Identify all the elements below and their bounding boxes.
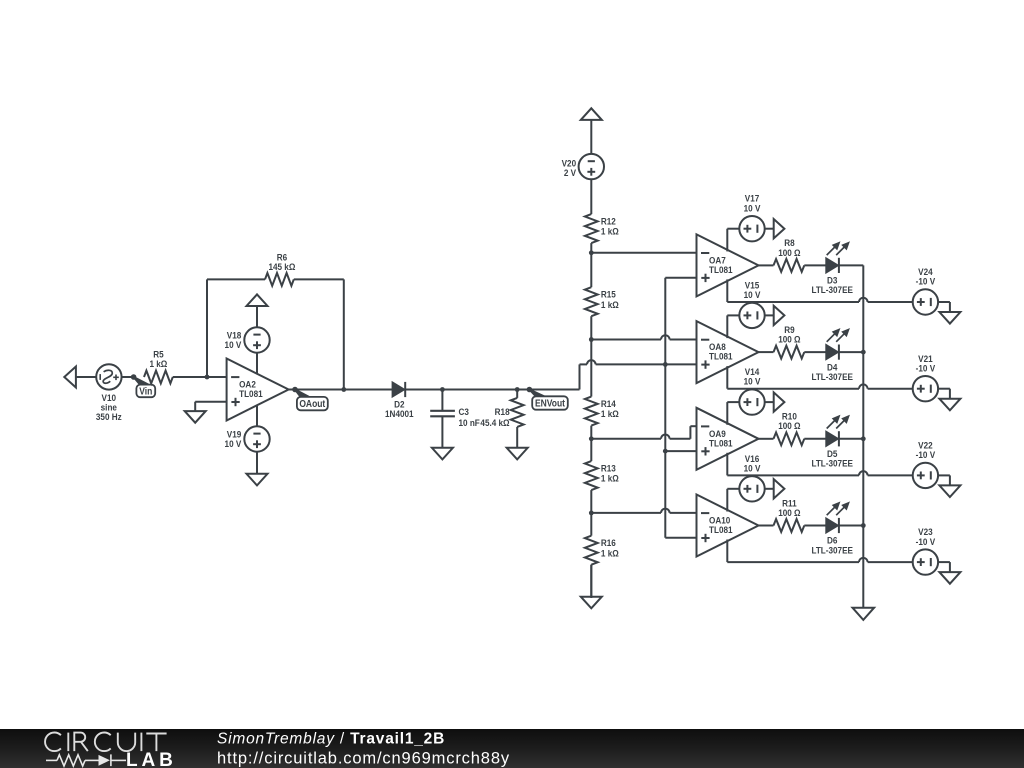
svg-text:-10 V: -10 V	[916, 276, 936, 287]
wire (V- pin to negative supply)	[727, 540, 912, 563]
node Vin flag	[131, 374, 155, 397]
voltage source V20 2 V	[579, 154, 604, 179]
svg-text:1 kΩ: 1 kΩ	[601, 548, 619, 559]
svg-text:TL081: TL081	[239, 388, 263, 399]
resistor R18 45.4k	[511, 390, 524, 448]
ground (top of ladder, rotated up)	[581, 108, 602, 154]
node (rail-ENVout junction)	[663, 362, 668, 367]
label V17 10 V	[744, 193, 761, 213]
ground (input, rotated left)	[64, 367, 96, 388]
op-amp OA10 TL081	[697, 495, 759, 557]
wire (LED cathode to rail)	[839, 264, 863, 266]
ground (right of V24)	[938, 302, 960, 324]
wire	[122, 376, 134, 378]
resistor R5 1k	[144, 371, 207, 384]
ground (bottom of ladder)	[581, 565, 602, 609]
label V21 -10 V	[916, 353, 936, 373]
node C / wire to OA9 inverting input	[589, 426, 697, 441]
voltage source V17 10 V	[739, 216, 764, 241]
label V14 10 V	[744, 366, 761, 386]
node (cathode rail junction)	[861, 350, 866, 355]
svg-text:10 V: 10 V	[225, 438, 242, 449]
resistor R13 1k	[585, 439, 598, 513]
label R13 1 kOhm	[601, 463, 619, 484]
ground (right of V17)	[765, 219, 785, 238]
svg-text:-10 V: -10 V	[916, 536, 936, 547]
wire (LED cathode to rail)	[839, 438, 863, 440]
wire (non-inverting input rail)	[665, 278, 696, 538]
label R15 1 kOhm	[601, 289, 619, 310]
wire (feedback down leg)	[343, 279, 345, 389]
label C3 10 nF	[459, 406, 481, 428]
label V15 10 V	[744, 280, 761, 300]
voltage source V16 10 V	[739, 476, 764, 501]
svg-text:LTL-307EE: LTL-307EE	[811, 458, 853, 469]
LED D3 LTL-307EE	[826, 242, 849, 273]
svg-text:C3: C3	[459, 406, 469, 417]
svg-text:1 kΩ: 1 kΩ	[601, 409, 619, 420]
svg-text:100 Ω: 100 Ω	[778, 421, 800, 432]
svg-text:100 Ω: 100 Ω	[778, 334, 800, 345]
svg-text:LTL-307EE: LTL-307EE	[811, 371, 853, 382]
svg-text:TL081: TL081	[709, 351, 733, 362]
svg-text:100 Ω: 100 Ω	[778, 507, 800, 518]
node D / wire to OA10 inverting input	[589, 509, 697, 516]
node B / wire to OA8 inverting input	[589, 335, 697, 342]
ground (OA2 non-inverting input)	[185, 402, 227, 423]
ground (right of V23)	[938, 562, 960, 584]
wire (V+ pin)	[256, 353, 258, 375]
svg-text:1 kΩ: 1 kΩ	[601, 473, 619, 484]
wire (LED cathode to rail)	[839, 351, 863, 353]
svg-text:LAB: LAB	[126, 750, 177, 768]
label V23 -10 V	[916, 527, 936, 547]
node OAout flag	[292, 387, 328, 411]
op-amp OA8 TL081	[697, 321, 759, 383]
svg-text:LTL-307EE: LTL-307EE	[811, 545, 853, 556]
node	[440, 387, 445, 392]
ground (right of V22)	[938, 475, 960, 497]
node (rail-OA9 junction)	[663, 449, 668, 454]
svg-text:Vin: Vin	[139, 386, 152, 397]
label V19 10 V	[225, 429, 242, 449]
voltage source V24 -10 V	[913, 289, 938, 314]
wire (feedback up leg)	[206, 279, 208, 377]
label R18 45.4 kOhm	[480, 406, 509, 428]
svg-text:-10 V: -10 V	[916, 449, 936, 460]
wire (V- pin to negative supply)	[727, 279, 912, 302]
svg-text:350 Hz: 350 Hz	[96, 411, 122, 422]
voltage source V21 -10 V	[913, 376, 938, 401]
resistor R10 100 Ohm	[759, 432, 827, 445]
op-amp OA2 TL081	[227, 359, 289, 421]
svg-text:SimonTremblay / Travail1_2B: SimonTremblay / Travail1_2B	[217, 731, 445, 748]
svg-text:10 V: 10 V	[225, 339, 242, 350]
svg-text:ENVout: ENVout	[535, 398, 565, 409]
wire (V+ pin)	[727, 402, 739, 425]
label V10 sine 350 Hz	[96, 392, 122, 422]
label D4 LTL-307EE	[811, 362, 853, 382]
label D5 LTL-307EE	[811, 448, 853, 468]
footer bar	[0, 729, 1024, 768]
label V22 -10 V	[916, 440, 936, 460]
label R8 100 Ohm	[778, 238, 800, 258]
svg-text:45.4 kΩ: 45.4 kΩ	[480, 417, 509, 428]
wire (to OA2 inverting input)	[207, 376, 227, 378]
ground (right of V15)	[765, 306, 785, 325]
svg-text:TL081: TL081	[709, 524, 733, 535]
ground (above V18)	[247, 294, 268, 327]
svg-text:10 V: 10 V	[744, 289, 761, 300]
voltage source V14 10 V	[739, 389, 764, 414]
op-amp OA9 TL081	[697, 408, 759, 470]
resistor R6 145k (feedback)	[207, 273, 344, 286]
voltage source V19 10 V	[244, 426, 269, 451]
wire (V- pin to negative supply)	[727, 366, 912, 389]
ground (bottom of cathode rail)	[853, 608, 875, 620]
wire (LED cathode rail)	[862, 265, 864, 607]
wire (ENVout to comparator + rail)	[580, 360, 666, 389]
node (cathode rail junction)	[861, 523, 866, 528]
svg-text:2 V: 2 V	[564, 168, 576, 179]
svg-text:145 kΩ: 145 kΩ	[268, 261, 295, 272]
resistor R16 1k	[585, 513, 598, 598]
LED D5 LTL-307EE	[826, 416, 849, 447]
op-amp OA7 TL081	[697, 234, 759, 296]
node A / wire to OA7 inverting input	[589, 250, 697, 255]
label R14 1 kOhm	[601, 398, 619, 419]
CircuitLab logo wire graphic	[46, 754, 126, 766]
svg-text:1N4001: 1N4001	[385, 408, 414, 419]
label R11 100 Ohm	[778, 498, 800, 518]
label D2 1N4001	[385, 399, 414, 419]
wire (OA2 output)	[289, 389, 393, 391]
label V16 10 V	[744, 453, 761, 473]
voltage source V23 -10 V	[913, 549, 938, 574]
voltage source V22 -10 V	[913, 463, 938, 488]
node	[515, 387, 520, 392]
label R5 1 kOhm	[149, 349, 167, 369]
wire (V- pin)	[256, 405, 258, 427]
svg-text:http://circuitlab.com/cn969mcr: http://circuitlab.com/cn969mcrch88y	[217, 749, 510, 767]
LED D4 LTL-307EE	[826, 329, 849, 360]
label R6 145 kOhm	[268, 252, 295, 272]
diode D2 1N4001	[393, 382, 406, 397]
svg-text:1 kΩ: 1 kΩ	[149, 358, 167, 369]
wire (LED cathode to rail)	[839, 525, 863, 527]
svg-text:LTL-307EE: LTL-307EE	[811, 285, 853, 296]
wire (V+ pin)	[727, 489, 739, 512]
label R10 100 Ohm	[778, 411, 800, 431]
svg-text:1 kΩ: 1 kΩ	[601, 226, 619, 237]
node	[341, 387, 346, 392]
node ENVout flag	[527, 387, 568, 410]
svg-text:10 V: 10 V	[744, 203, 761, 214]
svg-text:10 V: 10 V	[744, 376, 761, 387]
label R16 1 kOhm	[601, 538, 619, 559]
ground (below V19)	[247, 452, 268, 486]
ground (below C3)	[432, 447, 453, 459]
ground (below R18)	[507, 447, 528, 459]
resistor R12 1k	[585, 179, 598, 253]
voltage source V15 10 V	[739, 303, 764, 328]
wire	[405, 389, 579, 391]
svg-text:R18: R18	[495, 406, 510, 417]
svg-text:10 nF: 10 nF	[459, 417, 481, 428]
ground (right of V21)	[938, 389, 960, 411]
voltage source V10 sine 350 Hz	[96, 364, 121, 389]
svg-text:1 kΩ: 1 kΩ	[601, 299, 619, 310]
label V24 -10 V	[916, 266, 936, 286]
label D6 LTL-307EE	[811, 535, 853, 555]
node (feedback junction)	[205, 375, 210, 380]
node (cathode rail junction)	[861, 436, 866, 441]
label V20 2 V	[562, 158, 577, 178]
wire (ENVout into OA8 + input)	[665, 363, 696, 365]
voltage source V18 10 V	[244, 327, 269, 352]
label D3 LTL-307EE	[811, 275, 853, 295]
wire (V+ pin)	[727, 229, 739, 252]
label R9 100 Ohm	[778, 324, 800, 344]
svg-text:OAout: OAout	[299, 399, 325, 410]
ground (right of V16)	[765, 479, 785, 498]
svg-text:10 V: 10 V	[744, 463, 761, 474]
resistor R14 1k	[585, 340, 598, 439]
svg-text:100 Ω: 100 Ω	[778, 247, 800, 258]
resistor R11 100 Ohm	[759, 519, 827, 532]
wire (to OA9 + input)	[665, 450, 696, 452]
LED D6 LTL-307EE	[826, 502, 849, 533]
wire (V- pin to negative supply)	[727, 453, 912, 476]
CircuitLab logo CIRCUIT	[45, 733, 167, 752]
resistor R15 1k	[585, 253, 598, 340]
resistor R9 100 Ohm	[759, 346, 827, 359]
label R12 1 kOhm	[601, 216, 619, 237]
wire (V+ pin)	[727, 315, 739, 338]
svg-text:-10 V: -10 V	[916, 363, 936, 374]
label V18 10 V	[225, 330, 242, 350]
ground (right of V14)	[765, 392, 785, 411]
svg-text:TL081: TL081	[709, 264, 733, 275]
resistor R8 100 Ohm	[759, 259, 827, 272]
svg-text:TL081: TL081	[709, 438, 733, 449]
capacitor C3 10 nF	[430, 390, 455, 448]
